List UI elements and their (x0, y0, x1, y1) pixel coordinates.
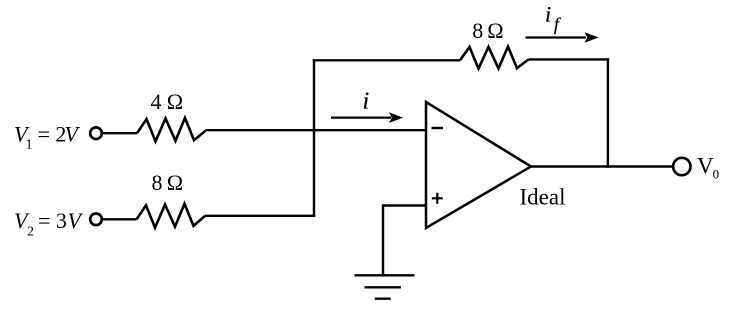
svg-text:Ω: Ω (487, 18, 503, 43)
wire R1 to op-amp inverting input (node A) (206, 129, 427, 131)
svg-text:8: 8 (152, 170, 163, 195)
wire ground riser (382, 204, 384, 275)
wire non-inverting input (383, 204, 426, 206)
arrow current i (331, 112, 403, 123)
label 8 ohm feedback (472, 18, 503, 43)
svg-text:Ideal: Ideal (520, 185, 566, 210)
svg-text:4: 4 (151, 89, 162, 114)
wire V2 terminal to R2 (102, 218, 137, 220)
label 8 ohm input (152, 170, 184, 195)
wire feedback top left segment (313, 59, 460, 61)
svg-text:= 3: = 3 (38, 208, 67, 233)
wire op-amp output to terminal (node V0) (531, 165, 672, 167)
label 4 ohm (151, 89, 184, 114)
ground (355, 275, 415, 298)
svg-text:0: 0 (713, 167, 720, 182)
terminal V2 (90, 214, 102, 226)
resistor R1 4ohm (137, 118, 206, 141)
resistor Rf 8ohm feedback (460, 47, 529, 69)
terminal V0 (673, 158, 690, 175)
label V0 (697, 154, 719, 182)
svg-text:= 2: = 2 (38, 122, 67, 147)
svg-text:2: 2 (27, 225, 34, 240)
svg-text:Ω: Ω (167, 89, 183, 114)
op-amp minus pin mark (432, 127, 444, 129)
label V2 = 3V (14, 208, 84, 240)
svg-text:V: V (697, 154, 714, 179)
svg-text:Ω: Ω (167, 170, 183, 195)
resistor R2 8ohm (137, 204, 206, 228)
wire R2 to vertical riser (205, 215, 315, 217)
svg-text:1: 1 (26, 138, 33, 153)
wire feedback right vertical down to output (607, 58, 609, 168)
wire V1 terminal to R1 (102, 132, 137, 134)
op-amp plus pin mark (432, 193, 443, 204)
svg-text:i: i (363, 89, 370, 115)
svg-text:8: 8 (472, 18, 483, 43)
op-amp U1 triangle (426, 102, 531, 228)
terminal V1 (90, 127, 102, 139)
label if (545, 2, 561, 35)
svg-text:i: i (545, 2, 551, 27)
wire vertical riser V2 node to feedback top (313, 59, 315, 217)
label V1 = 2V (14, 122, 81, 153)
arrow current if (526, 32, 599, 43)
wire feedback top right segment (529, 58, 610, 60)
